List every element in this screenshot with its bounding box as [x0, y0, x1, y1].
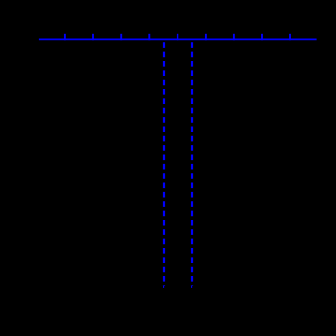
- tick 8: [261, 34, 263, 40]
- tick 9: [289, 34, 291, 40]
- dashed vertical line left bottom tail: [163, 286, 165, 288]
- tick 1: [64, 34, 66, 40]
- tick 3: [120, 34, 122, 40]
- tick 7: [233, 34, 235, 40]
- dashed vertical line left: [163, 42, 165, 286]
- number line axis: [39, 38, 317, 40]
- dashed vertical line right bottom tail: [191, 286, 193, 288]
- tick 2: [92, 34, 94, 40]
- dashed vertical line right: [191, 42, 193, 286]
- tick 4: [148, 34, 150, 40]
- tick 5: [177, 34, 179, 40]
- tick 6: [205, 34, 207, 40]
